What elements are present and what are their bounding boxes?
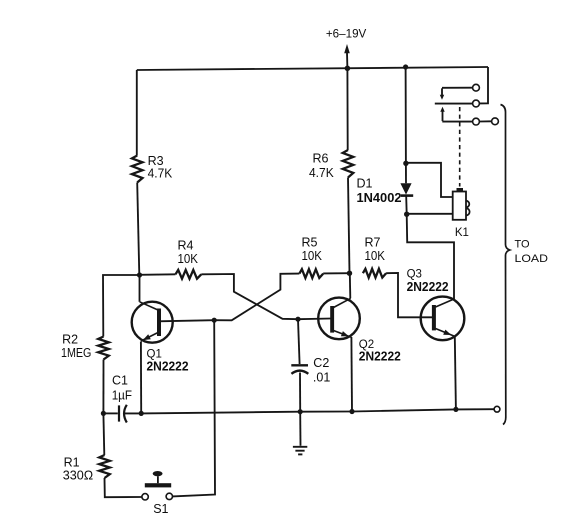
svg-text:+6–19V: +6–19V [326,26,366,40]
svg-text:R4: R4 [178,239,194,253]
svg-text:R2: R2 [62,333,78,347]
svg-text:.01: .01 [313,371,330,385]
svg-text:2N2222: 2N2222 [147,360,189,374]
svg-text:1µF: 1µF [112,389,133,403]
svg-text:R1: R1 [64,456,80,470]
svg-text:C1: C1 [112,373,128,387]
svg-text:4.7K: 4.7K [309,166,334,180]
svg-text:10K: 10K [365,249,386,263]
svg-text:1MEG: 1MEG [61,346,91,360]
svg-text:R7: R7 [365,236,381,250]
svg-text:D1: D1 [357,177,373,191]
svg-text:1N4002: 1N4002 [357,191,402,205]
svg-text:TO: TO [515,239,531,251]
svg-text:10K: 10K [302,249,323,263]
svg-text:Q3: Q3 [407,269,422,281]
svg-text:10K: 10K [178,252,199,266]
svg-text:2N2222: 2N2222 [359,350,401,364]
svg-text:R5: R5 [302,236,318,250]
svg-text:C2: C2 [313,356,329,370]
svg-text:K1: K1 [455,227,469,239]
svg-text:LOAD: LOAD [515,253,549,265]
svg-text:2N2222: 2N2222 [407,280,449,294]
svg-text:330Ω: 330Ω [63,469,93,483]
svg-text:4.7K: 4.7K [148,167,173,181]
svg-text:R6: R6 [313,152,329,166]
svg-text:S1: S1 [153,502,168,516]
